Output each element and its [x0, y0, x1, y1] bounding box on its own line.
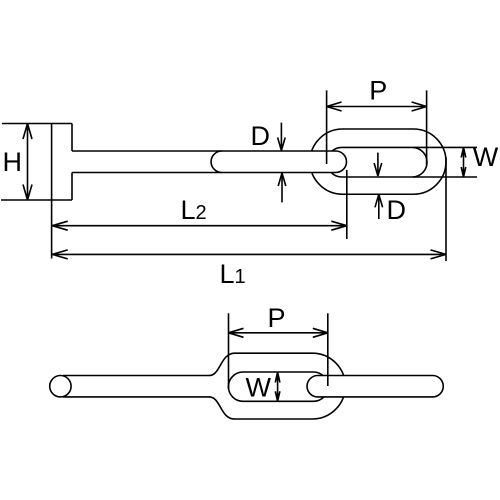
- svg-text:W: W: [245, 373, 271, 403]
- P dimension line with arrows (bottom): [229, 328, 328, 337]
- D arrows (link wire, bottom of link): [374, 153, 382, 176]
- svg-text:P: P: [267, 303, 285, 333]
- outer chain link (stadium ring), top view: [310, 129, 446, 194]
- edge-on link end arc on rod: [211, 151, 222, 173]
- svg-text:W: W: [473, 142, 499, 172]
- L1 right extension line: [445, 157, 447, 261]
- T-head right edge lower: [71, 173, 73, 201]
- L2 dimension line with arrows: [52, 221, 347, 230]
- svg-text:D: D: [251, 121, 271, 151]
- ogee fillet bottom-left: [210, 397, 235, 419]
- left rod bottom edge: [63, 396, 210, 398]
- inner hole of middle link: [228, 372, 328, 401]
- L1 dimension line with arrows: [52, 250, 446, 259]
- right rod (edge-on link) white fill over ring: [307, 376, 443, 397]
- svg-text:L2: L2: [181, 195, 207, 225]
- D arrows (rod diameter): [278, 123, 286, 151]
- W dimension arrow: [461, 147, 466, 177]
- inner hole of chain link: [327, 147, 427, 177]
- W dimension arrow (bottom): [275, 372, 280, 401]
- T-head bottom edge + H bottom extension line: [1, 199, 72, 201]
- middle link outer outline (top edge, right cap, bottom edge): [234, 353, 345, 419]
- H dimension arrow: [23, 124, 32, 201]
- right rod outline: [307, 376, 443, 397]
- rod outline: [72, 151, 347, 173]
- W extension lines (right of link): [413, 147, 477, 177]
- left rod top edge: [63, 375, 210, 377]
- svg-text:H: H: [2, 147, 22, 177]
- svg-text:P: P: [369, 76, 387, 106]
- L2 right extension line: [346, 170, 348, 239]
- P extension lines (top link): [327, 90, 427, 165]
- T-head right edge upper: [71, 124, 73, 152]
- T-head top edge + H top extension line: [2, 123, 72, 125]
- P extension lines (bottom link): [229, 313, 328, 389]
- T-head left edge + L1/L2 left extension line: [51, 124, 53, 259]
- svg-text:L1: L1: [220, 259, 246, 289]
- P dimension line with arrows: [327, 102, 427, 111]
- svg-text:D: D: [386, 195, 406, 225]
- rod of T-bar (white fill covers link arcs behind): [72, 151, 347, 173]
- ball end circle: [50, 376, 71, 397]
- ogee fillet top-left (rod merges into link): [210, 353, 235, 375]
